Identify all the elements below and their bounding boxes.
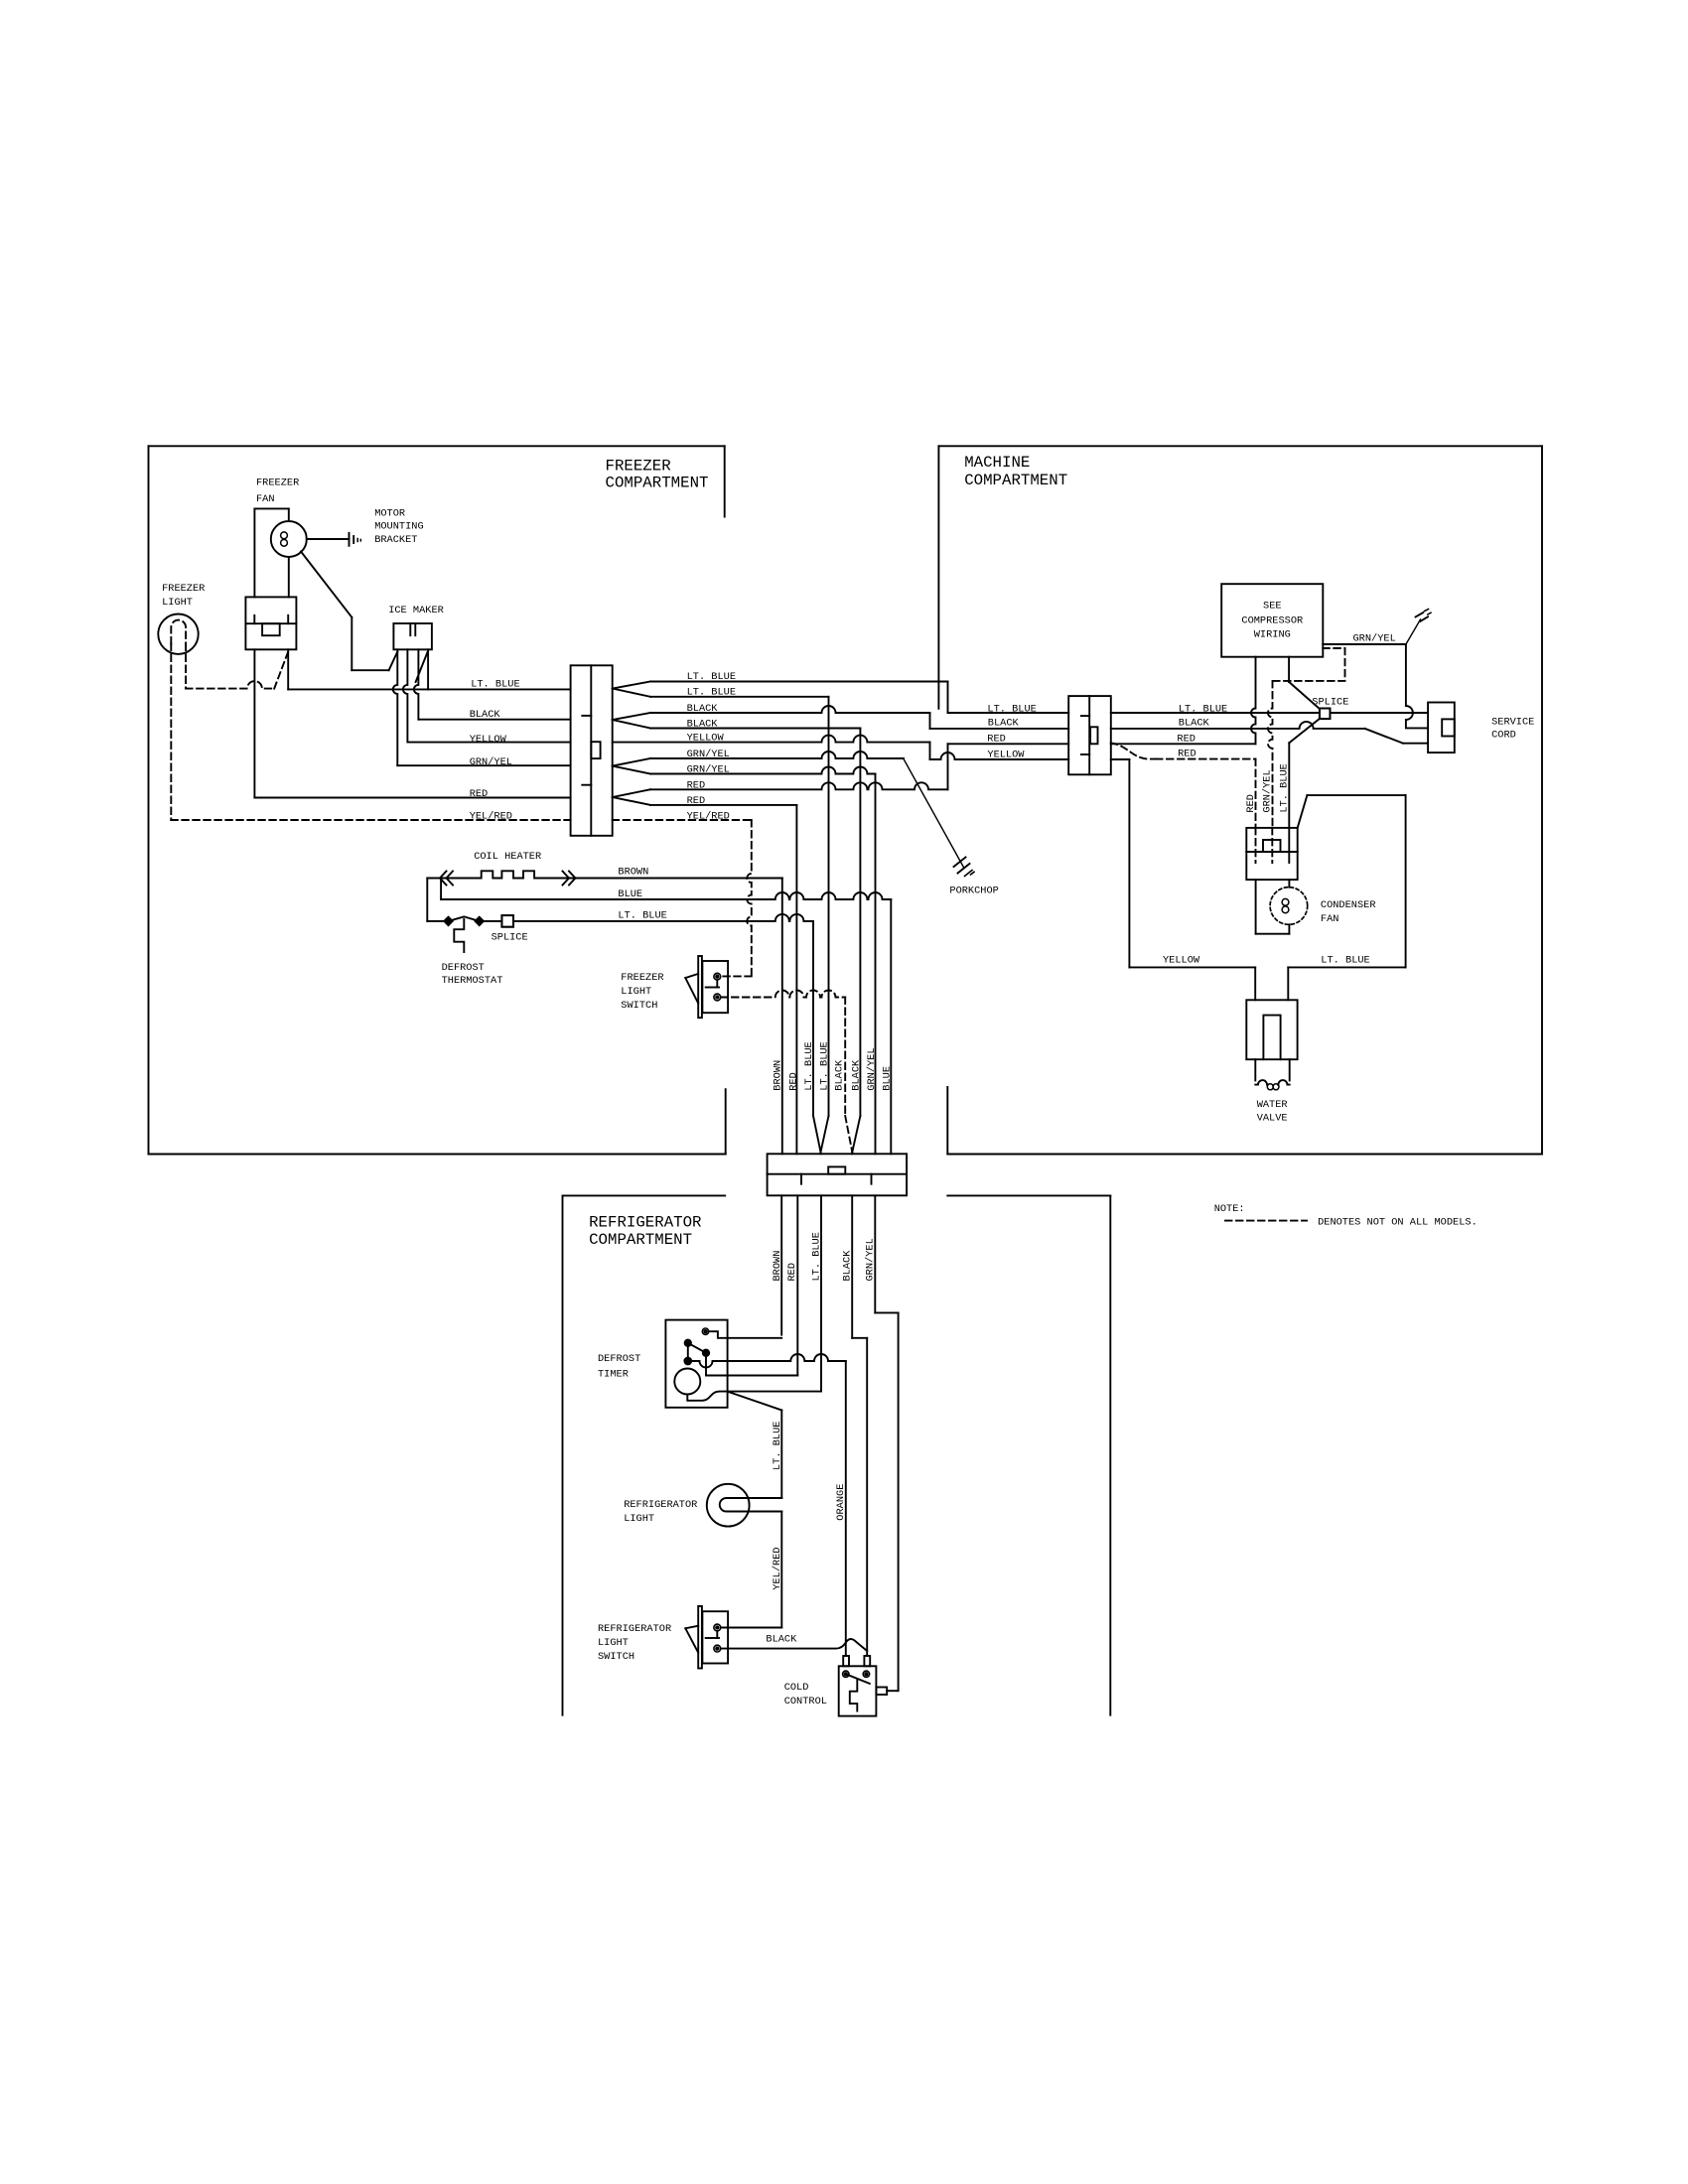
svg-text:FAN: FAN [256, 493, 275, 505]
svg-text:BLACK: BLACK [687, 703, 719, 715]
svg-text:DEFROST: DEFROST [442, 962, 485, 974]
svg-text:LT. BLUE: LT. BLUE [772, 1422, 783, 1470]
svg-text:GRN/YEL: GRN/YEL [1353, 632, 1396, 644]
svg-text:LT. BLUE: LT. BLUE [618, 910, 666, 922]
svg-text:YELLOW: YELLOW [470, 734, 507, 746]
svg-text:SERVICE: SERVICE [1491, 716, 1534, 728]
svg-text:YELLOW: YELLOW [987, 749, 1025, 760]
svg-text:BLUE: BLUE [881, 1066, 893, 1091]
svg-text:RED: RED [786, 1263, 798, 1282]
svg-text:COMPARTMENT: COMPARTMENT [606, 475, 709, 492]
svg-text:RED: RED [1245, 794, 1257, 813]
svg-text:MACHINE: MACHINE [964, 454, 1030, 472]
svg-text:CONDENSER: CONDENSER [1321, 899, 1376, 911]
svg-text:BROWN: BROWN [772, 1251, 783, 1282]
svg-text:SPLICE: SPLICE [1312, 696, 1348, 708]
svg-text:RED: RED [787, 1072, 799, 1091]
svg-text:MOTOR: MOTOR [374, 508, 405, 520]
svg-text:LT. BLUE: LT. BLUE [1179, 704, 1227, 716]
svg-text:COMPARTMENT: COMPARTMENT [964, 472, 1067, 489]
svg-text:BLACK: BLACK [766, 1634, 797, 1646]
svg-text:LT. BLUE: LT. BLUE [1321, 955, 1369, 967]
svg-text:YEL/RED: YEL/RED [687, 810, 730, 822]
svg-text:BLACK: BLACK [470, 709, 501, 721]
svg-text:LT. BLUE: LT. BLUE [811, 1232, 823, 1281]
svg-text:RED: RED [687, 779, 706, 791]
svg-text:GRN/YEL: GRN/YEL [866, 1047, 878, 1090]
svg-text:GRN/YEL: GRN/YEL [865, 1238, 877, 1281]
svg-text:PORKCHOP: PORKCHOP [949, 885, 998, 896]
svg-text:LIGHT: LIGHT [598, 1637, 629, 1649]
svg-text:RED: RED [987, 733, 1006, 745]
svg-text:GRN/YEL: GRN/YEL [687, 764, 730, 776]
svg-text:NOTE:: NOTE: [1214, 1203, 1245, 1215]
svg-text:LT. BLUE: LT. BLUE [471, 678, 519, 690]
svg-text:WIRING: WIRING [1254, 629, 1291, 641]
svg-text:FAN: FAN [1321, 913, 1339, 925]
svg-text:YELLOW: YELLOW [687, 733, 725, 745]
svg-text:SWITCH: SWITCH [598, 1651, 634, 1663]
svg-text:FREEZER: FREEZER [162, 583, 205, 595]
svg-text:RED: RED [1178, 748, 1196, 759]
svg-text:COLD: COLD [784, 1682, 809, 1694]
svg-text:BLACK: BLACK [850, 1059, 862, 1091]
svg-text:TIMER: TIMER [598, 1368, 629, 1380]
svg-text:YELLOW: YELLOW [1163, 955, 1200, 967]
svg-text:BLACK: BLACK [988, 718, 1020, 730]
svg-text:FREEZER: FREEZER [256, 478, 299, 489]
svg-text:GRN/YEL: GRN/YEL [687, 749, 730, 760]
svg-text:ICE MAKER: ICE MAKER [388, 605, 444, 616]
svg-text:BROWN: BROWN [618, 867, 648, 879]
svg-text:BLACK: BLACK [842, 1250, 854, 1282]
svg-text:SEE: SEE [1263, 601, 1282, 613]
svg-text:ORANGE: ORANGE [835, 1484, 847, 1521]
svg-text:COMPARTMENT: COMPARTMENT [589, 1231, 692, 1249]
svg-text:LT. BLUE: LT. BLUE [687, 671, 736, 683]
svg-text:COIL HEATER: COIL HEATER [474, 851, 541, 863]
svg-text:LT. BLUE: LT. BLUE [803, 1041, 815, 1090]
svg-text:BROWN: BROWN [773, 1060, 784, 1091]
svg-text:VALVE: VALVE [1257, 1113, 1288, 1125]
svg-text:SPLICE: SPLICE [492, 931, 528, 943]
svg-text:DENOTES NOT ON ALL MODELS.: DENOTES NOT ON ALL MODELS. [1318, 1217, 1477, 1229]
svg-text:LT. BLUE: LT. BLUE [1279, 763, 1291, 812]
svg-text:FREEZER: FREEZER [606, 457, 672, 475]
svg-text:REFRIGERATOR: REFRIGERATOR [598, 1623, 671, 1635]
svg-text:GRN/YEL: GRN/YEL [1262, 769, 1274, 812]
svg-text:MOUNTING: MOUNTING [374, 521, 423, 533]
svg-text:DEFROST: DEFROST [598, 1353, 640, 1365]
svg-text:LIGHT: LIGHT [162, 597, 193, 609]
svg-text:CORD: CORD [1491, 729, 1516, 741]
svg-text:GRN/YEL: GRN/YEL [470, 756, 512, 768]
svg-text:BLACK: BLACK [1179, 718, 1210, 730]
svg-text:LT. BLUE: LT. BLUE [687, 687, 736, 699]
svg-text:LIGHT: LIGHT [624, 1513, 654, 1525]
svg-text:REFRIGERATOR: REFRIGERATOR [624, 1499, 697, 1511]
svg-text:FREEZER: FREEZER [621, 972, 663, 984]
svg-text:LT. BLUE: LT. BLUE [818, 1041, 830, 1090]
svg-text:BLACK: BLACK [834, 1059, 846, 1091]
svg-text:RED: RED [470, 788, 489, 800]
svg-text:RED: RED [1177, 733, 1196, 745]
svg-text:REFRIGERATOR: REFRIGERATOR [589, 1214, 702, 1232]
svg-text:CONTROL: CONTROL [784, 1696, 827, 1707]
svg-text:LIGHT: LIGHT [621, 986, 651, 998]
svg-text:COMPRESSOR: COMPRESSOR [1241, 615, 1303, 627]
svg-text:THERMOSTAT: THERMOSTAT [442, 975, 503, 987]
svg-text:BLUE: BLUE [618, 888, 642, 900]
svg-text:BLACK: BLACK [687, 718, 719, 730]
svg-text:WATER: WATER [1257, 1099, 1288, 1111]
svg-text:LT. BLUE: LT. BLUE [987, 704, 1036, 716]
svg-text:YEL/RED: YEL/RED [772, 1547, 783, 1589]
svg-text:YEL/RED: YEL/RED [470, 810, 512, 822]
svg-text:BRACKET: BRACKET [374, 534, 417, 546]
svg-text:SWITCH: SWITCH [621, 1000, 657, 1012]
svg-text:RED: RED [687, 795, 706, 807]
